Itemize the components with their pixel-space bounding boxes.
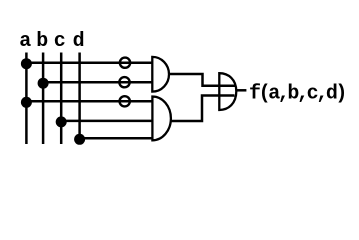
wire: row 2 (b to AND1 input) — [43, 81, 153, 84]
svg-text:b: b — [36, 30, 48, 53]
wire: row 3 (a to AND2 input) — [26, 100, 153, 103]
junction dot row1/line a — [21, 58, 32, 69]
AND gate 2 (inputs !a, c, d) — [152, 97, 171, 141]
junction dot row3/line a — [21, 97, 32, 108]
svg-text:f(a,b,c,d): f(a,b,c,d) — [249, 82, 345, 105]
svg-text:c: c — [54, 30, 66, 53]
wire: OR output — [236, 89, 246, 92]
junction dot row4/line c — [56, 116, 67, 127]
wire: vertical input line b — [42, 53, 45, 145]
wire: vertical input line a — [25, 53, 28, 145]
wire: row 4 (c to AND2 input) — [61, 120, 153, 123]
inverter bubble row 3 — [120, 96, 130, 106]
wire: row 1 (a to AND1 input) — [26, 61, 153, 64]
inverter bubble row 1 — [120, 58, 130, 68]
wire: vertical input line d — [78, 53, 81, 145]
svg-text:d: d — [73, 30, 85, 53]
OR gate (final) — [219, 73, 236, 110]
inverter bubble row 2 — [119, 77, 129, 87]
wire: AND1 output to OR top input — [169, 74, 235, 86]
AND gate 1 (inputs !a, !b) — [152, 57, 169, 92]
junction dot row5/line d — [74, 134, 85, 145]
svg-text:a: a — [19, 30, 31, 53]
wire: vertical input line c — [60, 53, 63, 145]
wire: AND2 output to OR bottom input — [171, 96, 235, 122]
wire: row 5 (d to AND2 input) — [80, 137, 153, 140]
junction dot row2/line b — [38, 78, 49, 89]
